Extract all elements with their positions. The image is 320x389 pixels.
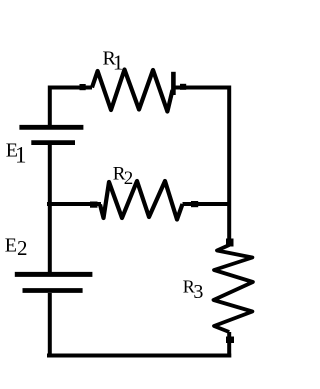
battery E1 top plate bbox=[19, 125, 83, 130]
svg-text:1: 1 bbox=[15, 143, 27, 168]
wire: middle branch right segment bbox=[183, 202, 232, 206]
arrowhead on wire right of R2 bbox=[191, 201, 198, 207]
wire: left vertical E1 to E2 (through node B) bbox=[48, 145, 52, 272]
wire: middle branch left segment bbox=[47, 202, 101, 206]
wire: R3 bottom to bottom-right corner bbox=[227, 332, 231, 358]
svg-text:2: 2 bbox=[124, 168, 134, 189]
label R3 bbox=[183, 276, 204, 303]
wire: top-left vertical (node A to E1 top plate) bbox=[50, 88, 92, 126]
resistor R1 bbox=[92, 70, 173, 112]
label R1 bbox=[103, 47, 124, 74]
label E2 bbox=[5, 235, 28, 261]
arrowhead below R3 bbox=[226, 337, 234, 344]
svg-text:2: 2 bbox=[17, 236, 28, 260]
svg-text:1: 1 bbox=[113, 50, 124, 74]
battery E2 bottom plate bbox=[23, 288, 83, 293]
label E1 bbox=[6, 139, 27, 167]
wire: bottom wire bbox=[47, 354, 231, 358]
arrowhead on wire right of R1 bbox=[180, 84, 186, 90]
resistor R3 bbox=[214, 245, 253, 332]
battery E2 top plate bbox=[15, 272, 93, 277]
svg-text:3: 3 bbox=[193, 281, 203, 303]
battery E1 bottom plate bbox=[31, 140, 75, 145]
wire: left vertical E2 to bottom wire bbox=[48, 293, 52, 358]
arrowhead above R3 bbox=[226, 239, 234, 247]
resistor R1 right end stub bbox=[171, 72, 176, 95]
wire: top wire right of R1 to top-right corner bbox=[173, 88, 229, 246]
arrowhead on wire left of R1 bbox=[80, 84, 86, 90]
resistor R2 bbox=[100, 181, 183, 220]
arrowhead on wire left of R2 bbox=[90, 202, 98, 208]
svg-text:E: E bbox=[5, 235, 17, 257]
label R2 bbox=[113, 164, 134, 189]
